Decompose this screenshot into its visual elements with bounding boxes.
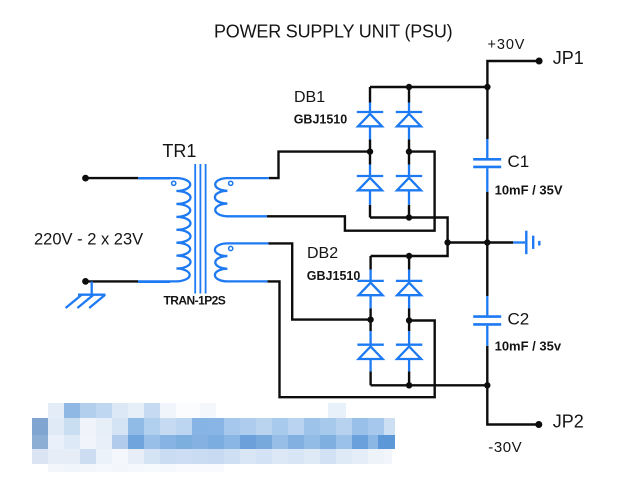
svg-text:GBJ1510: GBJ1510 <box>294 113 348 127</box>
svg-text:-30V: -30V <box>488 439 522 456</box>
svg-text:TR1: TR1 <box>162 141 196 161</box>
svg-text:GBJ1510: GBJ1510 <box>307 269 361 283</box>
svg-text:DB2: DB2 <box>307 245 338 262</box>
svg-text:JP1: JP1 <box>553 48 584 68</box>
svg-text:C2: C2 <box>508 310 530 329</box>
svg-text:DB1: DB1 <box>294 89 325 106</box>
svg-text:220V - 2 x 23V: 220V - 2 x 23V <box>34 230 143 248</box>
svg-text:C1: C1 <box>508 152 530 171</box>
svg-text:JP2: JP2 <box>553 411 584 431</box>
svg-text:10mF / 35v: 10mF / 35v <box>495 338 562 353</box>
svg-text:+30V: +30V <box>488 37 526 53</box>
svg-text:10mF / 35V: 10mF / 35V <box>495 183 563 198</box>
svg-text:TRAN-1P2S: TRAN-1P2S <box>164 294 226 308</box>
svg-text:POWER SUPPLY UNIT (PSU): POWER SUPPLY UNIT (PSU) <box>214 21 452 41</box>
